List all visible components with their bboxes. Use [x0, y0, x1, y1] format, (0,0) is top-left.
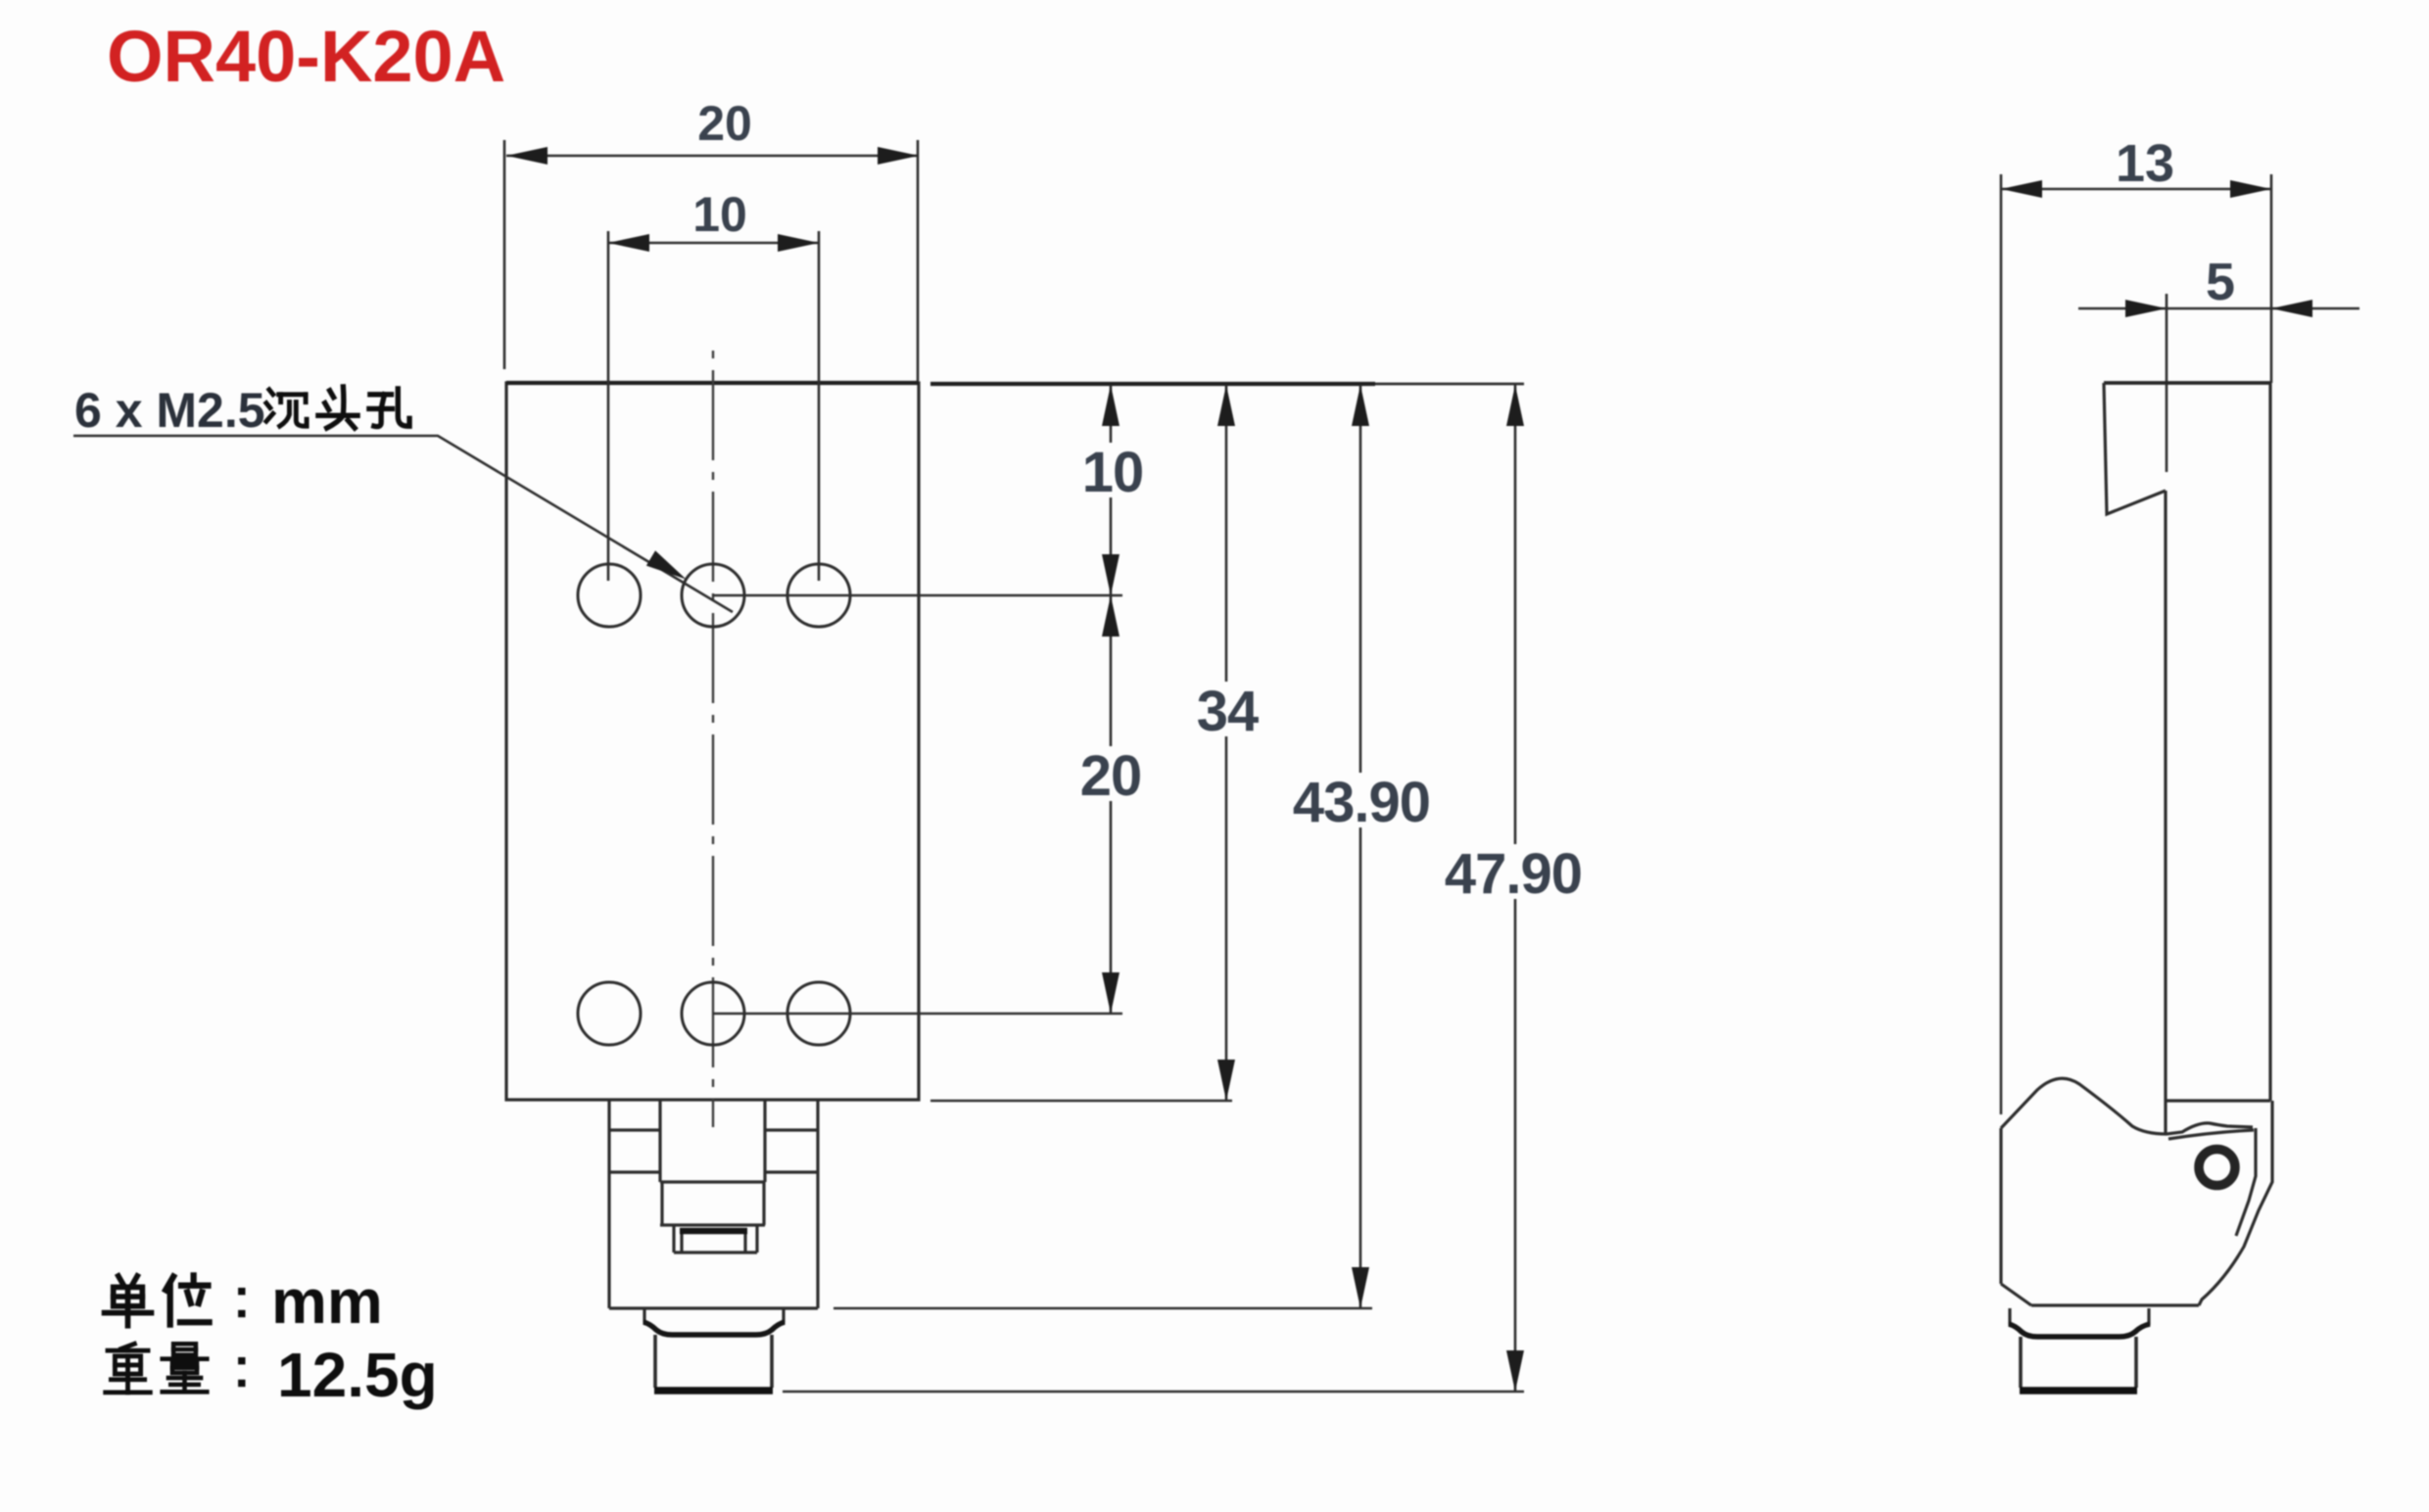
clamp left wall inner edge — [658, 1100, 661, 1182]
svg-text:5: 5 — [2206, 253, 2235, 311]
side clamp ear edge — [2236, 1128, 2256, 1236]
connector neck (side, thick) — [2009, 1324, 2150, 1337]
reference line body bottom — [930, 1100, 1232, 1103]
extension line right of side view top (x=2319) — [2270, 174, 2273, 383]
clamp wall score line 1 — [609, 1128, 818, 1131]
counterbore hole 2 (M2.5) — [682, 564, 744, 627]
front view body plate outline — [506, 383, 919, 1100]
side view plate bottom edge — [2167, 1099, 2270, 1102]
svg-text:34: 34 — [1197, 680, 1259, 743]
dimension line 10/20 (x=1134) — [1110, 385, 1113, 1014]
clamp insert mid line — [660, 1223, 765, 1226]
connector bottom (front, thick) — [654, 1387, 773, 1394]
dimension label 10 — [1079, 443, 1146, 497]
clamp right wall outer edge — [816, 1100, 819, 1308]
side view top edge — [2104, 381, 2270, 385]
note line 2: weight 12.5g — [106, 1344, 151, 1393]
svg-text:43.90: 43.90 — [1293, 771, 1430, 834]
connector flange sides (side) — [2010, 1308, 2149, 1325]
side view plate back edge (x=2318) — [2268, 383, 2271, 1101]
reference line hole row 2 — [713, 1013, 1122, 1016]
connector flange sides (front) — [644, 1308, 784, 1323]
note line 1: unit mm — [105, 1276, 152, 1326]
screw slot thick line — [680, 1228, 747, 1235]
dimension line 34 (x=1252) — [1225, 385, 1228, 1101]
side clamp bottom-left chamfer — [2001, 1284, 2031, 1305]
clamp wall score line 2 — [609, 1170, 818, 1173]
centerline (vertical dash-dot through front view) — [712, 351, 714, 1127]
clamp bottom edge — [609, 1306, 818, 1309]
dimension 20 (top width) — [506, 155, 919, 158]
leader line for counterbore note — [73, 436, 733, 612]
screw head bottom — [674, 1251, 757, 1253]
dimension 10 (hole spacing top) — [608, 242, 819, 245]
extension line left of side view (x=2043) — [2000, 174, 2003, 1114]
clamp insert sides — [662, 1182, 764, 1225]
svg-text:10: 10 — [692, 187, 747, 242]
svg-text:6 x M2.5: 6 x M2.5 — [74, 383, 265, 438]
counterbore hole 6 (M2.5) — [787, 982, 850, 1045]
side clamp left edge — [1999, 1128, 2002, 1284]
side clamp bottom edge — [2031, 1303, 2199, 1306]
counterbore hole 3 (M2.5) — [787, 564, 850, 627]
side clamp block right edge and chamfer — [2199, 1101, 2272, 1305]
clamp left wall outer edge — [607, 1100, 610, 1308]
connector neck (front, thick) — [643, 1322, 785, 1335]
hole extension line left (x=621) — [607, 231, 610, 581]
clamp insert top edge — [660, 1180, 765, 1183]
dimension label 20 — [1077, 746, 1144, 801]
connector bottom (side, thick) — [2020, 1387, 2137, 1394]
dimension 13 (side overall width) — [2001, 188, 2271, 191]
dimension label 34 — [1194, 682, 1261, 736]
counterbore hole 1 (M2.5) — [578, 564, 641, 627]
clamp right wall inner edge — [763, 1100, 766, 1182]
svg-text:10: 10 — [1082, 441, 1144, 504]
reference line hole row 1 — [713, 594, 1122, 597]
side clamp ear top edge — [2168, 1130, 2254, 1139]
hole extension line right (x=836) — [818, 231, 821, 581]
extension line x=2212 for 5 dim — [2166, 294, 2168, 472]
svg-text:20: 20 — [697, 96, 752, 151]
svg-text:12.5g: 12.5g — [277, 1340, 438, 1410]
screw head sides — [674, 1225, 757, 1252]
svg-text:13: 13 — [2116, 134, 2174, 193]
counterbore hole 4 (M2.5) — [578, 982, 641, 1045]
connector barrel sides (side) — [2021, 1337, 2136, 1388]
note text chen-tou-kong (counterbore) — [266, 390, 307, 426]
counterbore hole 5 (M2.5) — [682, 982, 744, 1045]
reference line connector bottom — [783, 1391, 1524, 1394]
connector barrel sides (front) — [655, 1335, 772, 1388]
svg-text:20: 20 — [1080, 744, 1142, 808]
dimension label 43.90 — [1287, 773, 1436, 827]
side view top-left flap with angled cut — [2104, 383, 2166, 514]
reference line clamp bottom — [833, 1307, 1372, 1310]
dimension line 47.90 (x=1547) — [1514, 385, 1517, 1392]
svg-text:47.90: 47.90 — [1445, 842, 1582, 906]
svg-text:mm: mm — [271, 1266, 383, 1337]
clamp screw hole (side) — [2199, 1150, 2235, 1186]
dimension line 43.90 (x=1389) — [1359, 385, 1362, 1308]
dimension 5 (plate thickness) — [2078, 307, 2359, 310]
side clamp lever wavy top profile — [2001, 1078, 2253, 1134]
side view plate front edge (x=2211) — [2164, 491, 2167, 1134]
dimension label 47.90 — [1439, 844, 1588, 899]
svg-text:OR40-K20A: OR40-K20A — [107, 16, 505, 97]
top edge reference line (extends right) — [930, 382, 1375, 386]
